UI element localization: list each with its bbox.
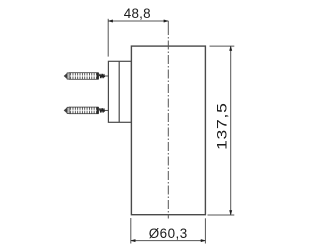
svg-text:Ø60,3: Ø60,3 (149, 226, 188, 241)
tip cone (64, 73, 67, 79)
cylinder body (131, 46, 205, 215)
centerline (167, 21, 169, 219)
dimension 48,8 (108, 6, 168, 56)
extension line right (204, 218, 206, 243)
arrow down (229, 210, 232, 214)
tip collar (67, 73, 69, 79)
svg-text:48,8: 48,8 (124, 6, 151, 21)
arrow left (131, 239, 135, 242)
screw 1 (64, 73, 108, 80)
arrow left (108, 20, 112, 23)
svg-text:137,5: 137,5 (215, 102, 230, 149)
screw 2 (64, 107, 108, 114)
extension line bottom (208, 214, 235, 216)
dimension Ø60,3 (131, 218, 206, 244)
wood thread zigzag (99, 74, 104, 78)
anchor body outline (69, 73, 98, 80)
dimension line (131, 240, 206, 242)
dark collar (97, 73, 99, 80)
extension line top (210, 45, 235, 47)
middle light stripe (70, 75, 98, 77)
thread bars (70, 73, 98, 79)
arrow up (229, 46, 232, 50)
shank stub (105, 75, 109, 77)
dimension line (108, 20, 168, 22)
dimension 137,5 (208, 46, 235, 215)
arrow right (201, 239, 205, 242)
extension line left (107, 19, 109, 57)
dimension line (230, 46, 232, 215)
mounting plate (108, 61, 131, 122)
extension line left (130, 218, 132, 244)
arrow right (164, 20, 168, 23)
